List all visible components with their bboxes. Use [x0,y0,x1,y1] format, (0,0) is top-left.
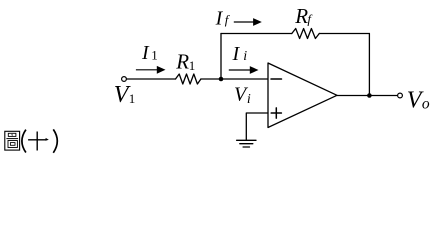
current arrow I1 [136,66,166,74]
op-amp minus input marker [271,78,282,80]
resistor R1 [176,74,201,84]
current arrow If [234,18,262,26]
label V1 [114,82,135,108]
caption 十 character [28,132,49,151]
label I1 [141,42,158,64]
label Rf [294,4,313,28]
wire feedback left segment [221,33,292,35]
wire feedback down to output [368,34,370,96]
output node junction dot [367,93,372,98]
label R1 [175,50,195,74]
caption ) paren [53,129,57,152]
wire plus input to ground [246,113,268,140]
output terminal Vo open circle [398,93,403,98]
svg-text:1: 1 [151,48,158,63]
label Vo [407,87,430,113]
svg-text:1: 1 [189,58,196,73]
caption figure 圖 character [5,131,20,150]
svg-text:f: f [307,11,313,26]
svg-text:R: R [175,50,189,74]
wire input to R1 [126,78,175,80]
svg-text:i: i [247,92,251,107]
resistor Rf [292,29,320,39]
wire op-amp output to Vo [337,95,398,97]
label Vi [234,84,251,107]
op-amp U1 triangle [268,63,337,128]
svg-text:1: 1 [129,91,136,106]
svg-text:I: I [141,42,150,64]
label Ii [232,43,248,65]
svg-text:I: I [215,8,224,30]
op-amp plus input marker [271,108,281,118]
input terminal V1 open circle [122,77,127,82]
svg-text:i: i [243,49,247,64]
label If [215,8,231,30]
svg-text:I: I [232,43,241,65]
ground [237,140,256,147]
caption ( paren [22,130,26,153]
wire R1 to op-amp inverting input [201,78,269,80]
wire node A up to feedback [220,34,222,80]
node A junction dot [219,77,224,82]
svg-text:R: R [294,4,308,28]
current arrow Ii [229,66,259,74]
svg-text:o: o [422,96,430,113]
wire feedback right segment [319,33,369,35]
svg-text:f: f [225,12,231,27]
